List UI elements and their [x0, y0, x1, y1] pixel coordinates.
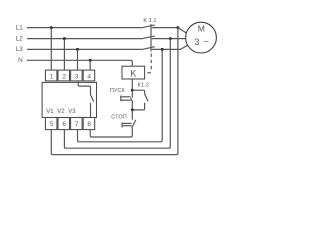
svg-text:L2: L2 [16, 35, 24, 42]
wire L2 drop to terminal 2 [63, 39, 65, 70]
svg-text:7: 7 [75, 121, 79, 128]
node junction dot L2 [63, 37, 66, 40]
node junction dot N [89, 59, 92, 62]
node junction dot L3 [76, 48, 79, 51]
svg-text:M: M [198, 24, 205, 34]
relay terminal strip bottom [45, 118, 94, 130]
svg-text:3: 3 [194, 37, 199, 47]
svg-text:6: 6 [62, 121, 66, 128]
svg-text:L1: L1 [16, 24, 24, 31]
node junction dot L1 [50, 26, 53, 29]
svg-text:4: 4 [87, 73, 91, 80]
svg-text:K 1.1: K 1.1 [143, 18, 156, 24]
svg-text:V2: V2 [57, 109, 65, 115]
wire terminal 5 to phase A [51, 28, 178, 155]
wire phase C slant into motor [181, 45, 188, 49]
contactor contact K1.1 pole 1 blade [141, 25, 155, 28]
wire L3 bus [27, 48, 141, 50]
contactor contact K1.1 pole 3 blade [141, 47, 155, 50]
svg-text:V1: V1 [46, 109, 54, 115]
motor M1 circle [186, 22, 217, 53]
svg-text:5: 5 [50, 121, 54, 128]
wire L3 drop to terminal 3 [77, 49, 79, 69]
wire K1.2 branch top [132, 90, 144, 94]
button STOP plunger cap [121, 122, 123, 127]
button PUSK plunger cap [120, 95, 122, 101]
node junction dot phase C to motor [161, 48, 164, 51]
contactor contact K1.1 pole 2 blade [141, 36, 155, 39]
wire L1 drop to terminal 1 [50, 28, 52, 70]
wire stop contact down [131, 128, 133, 137]
wire K1.2 branch bottom [132, 103, 144, 110]
button STOP NC blade [132, 120, 136, 128]
relay terminal strip top [45, 70, 94, 81]
svg-text:СТОП: СТОП [111, 115, 127, 121]
wire N drop to terminal 4 [89, 60, 91, 69]
wire node B to stop contact [131, 110, 133, 120]
svg-text:~: ~ [204, 35, 210, 46]
node junction dot A [131, 89, 134, 92]
contactor K1.1 mechanical link solid part [150, 24, 152, 52]
svg-text:V3: V3 [68, 109, 76, 115]
svg-text:ПУСК: ПУСК [110, 88, 125, 94]
wire terminal 6 to phase B [64, 39, 170, 149]
svg-text:К1.2: К1.2 [138, 82, 149, 88]
contactor K1.1 mechanical link dashed part [150, 54, 152, 72]
node junction dot phase A to motor [176, 26, 179, 29]
svg-text:K: K [130, 68, 136, 78]
svg-text:1: 1 [50, 73, 54, 80]
svg-text:L3: L3 [16, 46, 24, 53]
relay internal output contact blade [91, 95, 94, 102]
node junction dot B [131, 108, 134, 111]
button STOP plunger rod bottom [122, 125, 132, 127]
wire terminal 8 to stop button [90, 130, 131, 137]
wire node A to start contact [131, 90, 133, 98]
button STOP plunger rod top [122, 122, 132, 124]
wire start contact to node B [131, 102, 133, 110]
relay U1 body [42, 82, 96, 117]
wire N bus to coil [27, 60, 132, 66]
svg-text:3: 3 [75, 73, 79, 80]
aux contact K1.2 blade [145, 94, 149, 102]
contactor coil K box [122, 66, 145, 79]
wire L2 bus [27, 38, 141, 40]
button PUSK NO blade [131, 98, 134, 102]
svg-text:N: N [18, 57, 23, 64]
wire terminal 7 to phase C [78, 49, 163, 141]
wire L2 after contact [152, 38, 186, 40]
wire internal from terminal 3 [78, 81, 90, 95]
wire internal to terminal 8 [90, 103, 92, 118]
wire L1 bus [27, 27, 141, 29]
wire coil K to node A [131, 79, 133, 90]
wire L3 after contact [152, 48, 181, 50]
button PUSK plunger rod top [121, 96, 131, 98]
node junction dot phase B to motor [169, 37, 172, 40]
contactor K1.1 link end dash [147, 72, 151, 74]
wire phase A slant into motor [178, 28, 187, 33]
svg-text:2: 2 [62, 73, 66, 80]
wire L1 after contact [152, 27, 178, 29]
button PUSK plunger rod bottom [121, 99, 131, 101]
svg-text:8: 8 [87, 121, 91, 128]
